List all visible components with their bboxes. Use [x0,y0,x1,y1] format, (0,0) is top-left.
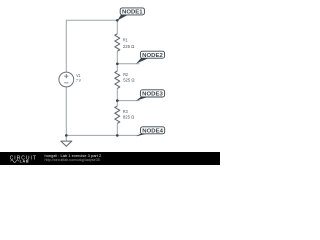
svg-text:R1: R1 [123,38,128,43]
svg-text:825 Ω: 825 Ω [123,115,135,120]
svg-text:NODE1: NODE1 [122,10,143,16]
svg-text:NODE4: NODE4 [142,128,163,134]
svg-text:225 Ω: 225 Ω [123,44,135,49]
svg-text:LAB: LAB [20,160,30,164]
svg-text:R3: R3 [123,109,128,114]
svg-text:525 Ω: 525 Ω [123,78,135,83]
svg-text:NODE3: NODE3 [142,91,163,97]
svg-text:R2: R2 [123,72,128,77]
svg-text:NODE2: NODE2 [142,53,163,59]
svg-text:http://circuitlab.com/c6qj/lad: http://circuitlab.com/c6qj/ladyse35 [45,158,100,162]
svg-text:7 V: 7 V [76,78,81,83]
